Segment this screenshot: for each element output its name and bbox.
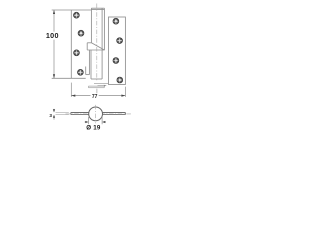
wire top extension line + left plate top edge xyxy=(52,9,92,11)
hole B3 xyxy=(113,58,118,63)
barrel lower part xyxy=(88,50,90,75)
wire bottom extension line + left plate bottom edge xyxy=(52,77,86,79)
plate seen from below (bar) xyxy=(71,113,126,115)
hole A3 xyxy=(74,50,79,55)
dimension 3 xyxy=(53,109,55,120)
hole B1 xyxy=(113,19,118,24)
centerline front view xyxy=(96,4,98,82)
notch / seam xyxy=(87,42,91,44)
svg-text:100: 100 xyxy=(46,31,59,40)
hole B2 xyxy=(117,38,122,43)
wire extension line right plate bottom xyxy=(94,82,109,84)
hole A4 xyxy=(78,70,83,75)
dimension 77 xyxy=(71,83,125,97)
horizontal centerline xyxy=(66,113,132,115)
washer bar under barrel xyxy=(89,85,105,87)
vertical centerline bottom view xyxy=(95,105,97,123)
left leaf plate xyxy=(70,10,72,78)
hole A2 xyxy=(78,31,83,36)
svg-text:77: 77 xyxy=(92,94,98,100)
hole B4 xyxy=(117,77,122,82)
right leaf plate xyxy=(109,17,126,85)
svg-text:3: 3 xyxy=(49,113,52,118)
hole A1 xyxy=(74,13,79,18)
barrel upper part xyxy=(90,8,92,43)
holes left plate xyxy=(74,13,123,83)
barrel circle xyxy=(89,107,103,121)
svg-text:Ø 19: Ø 19 xyxy=(86,124,101,131)
arrowhead small xyxy=(104,85,107,87)
small arrow at right plate bottom xyxy=(98,85,104,87)
dimension dia 19 xyxy=(85,117,106,124)
dimension 100 xyxy=(53,10,55,78)
thickness extension lines xyxy=(56,113,69,115)
